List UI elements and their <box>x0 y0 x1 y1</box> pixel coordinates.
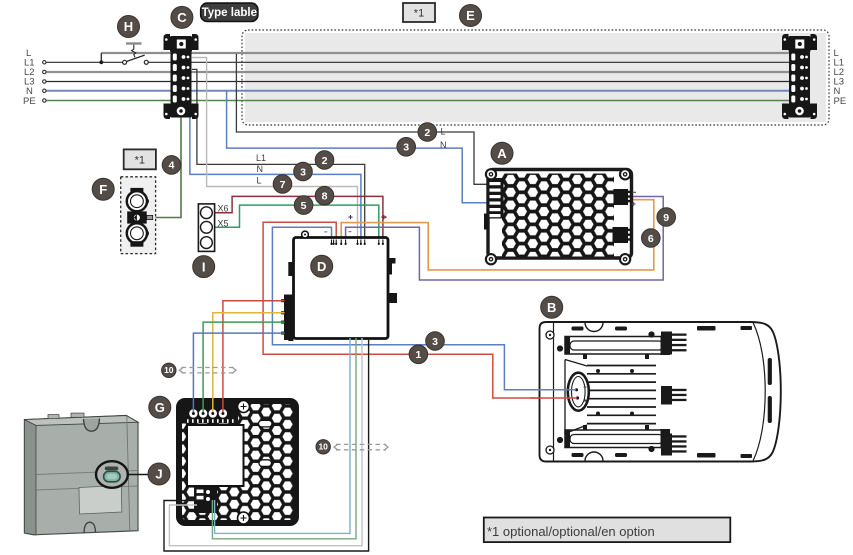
meter seam <box>36 471 138 475</box>
wire green loop G to D <box>212 338 356 539</box>
num 3 top <box>397 138 416 157</box>
num 2 top <box>418 123 437 142</box>
svg-text:1: 1 <box>415 349 421 361</box>
num 1 low <box>409 345 428 364</box>
svg-text:10: 10 <box>164 365 174 375</box>
B rib dots <box>596 369 600 373</box>
wire L (grey bus) <box>101 52 792 54</box>
G screws <box>238 401 250 413</box>
num 5 <box>294 196 313 215</box>
svg-text:L1: L1 <box>256 153 266 163</box>
svg-text:*1 optional/optional/en option: *1 optional/optional/en option <box>487 524 655 539</box>
wire N (blue bus) <box>46 90 792 92</box>
A left tab <box>484 214 489 230</box>
num 3 mid <box>294 162 313 181</box>
right block arms <box>782 34 789 50</box>
F dashed box <box>121 177 156 254</box>
D top pins <box>332 240 383 244</box>
wire N to device D <box>190 91 361 239</box>
wire L1 (black bus, right of switch) <box>148 61 792 63</box>
B oval polarity <box>584 386 587 388</box>
C arms <box>164 34 171 50</box>
right block head window <box>795 40 804 49</box>
B top bump <box>585 323 603 332</box>
meter lid tabs <box>48 415 59 419</box>
ref A <box>491 142 513 164</box>
wire X5 to device D <box>207 205 379 238</box>
D top screw <box>302 231 309 238</box>
G comb teeth <box>187 419 234 423</box>
switch H blade <box>126 55 144 62</box>
svg-text:L: L <box>441 126 446 136</box>
ref E <box>460 5 482 27</box>
svg-text:N: N <box>257 164 264 174</box>
node L to L1 feed <box>100 53 102 62</box>
bundle marker left <box>182 367 235 369</box>
wire green G to D <box>203 322 284 412</box>
right block slots <box>791 54 808 103</box>
ref G <box>149 396 171 418</box>
wire blue loop G to D <box>215 338 350 533</box>
wire L3 (black bus) <box>46 81 792 83</box>
wire red loop D to B <box>263 222 576 398</box>
svg-text:N: N <box>440 140 447 150</box>
svg-text:2: 2 <box>424 127 430 139</box>
ref J <box>148 463 170 485</box>
wire 3 N to device A <box>227 91 489 203</box>
svg-text:L: L <box>257 176 262 186</box>
box E grey fill <box>245 33 826 122</box>
A polarity plus <box>632 202 636 206</box>
wire yellow G to D <box>213 313 285 412</box>
callout slot <box>105 467 119 471</box>
G pills <box>259 420 273 427</box>
num 10 right <box>316 440 330 454</box>
wire red G to D <box>223 301 285 412</box>
A left connector <box>489 178 504 219</box>
A body <box>488 170 632 259</box>
ref I <box>193 256 215 278</box>
star1 box top <box>403 3 435 22</box>
svg-text:A: A <box>497 146 507 161</box>
num 7 <box>273 175 292 194</box>
G frame <box>176 398 299 526</box>
wire blue end into B <box>530 389 576 391</box>
B right connector blocks and pins <box>661 332 687 456</box>
optional note box <box>484 518 731 543</box>
minus mark blue loop <box>324 231 327 233</box>
svg-text:3: 3 <box>432 336 438 348</box>
meter body <box>24 416 138 535</box>
G bottom connector <box>194 487 217 514</box>
bundle marker right <box>336 443 386 445</box>
right block bottom screw <box>795 107 804 116</box>
num 4 <box>162 156 181 175</box>
wire PE to connector F <box>152 117 181 218</box>
svg-text:*1: *1 <box>135 154 145 166</box>
ref H <box>118 16 140 38</box>
ref C <box>171 6 193 28</box>
meter bottom notch <box>84 522 96 533</box>
svg-text:4: 4 <box>169 160 175 172</box>
svg-text:J: J <box>155 467 162 482</box>
B corner screws <box>546 331 554 339</box>
wire X6 to device D <box>207 196 383 238</box>
meter fold <box>127 416 130 531</box>
D body <box>294 238 389 339</box>
ref D <box>311 255 333 277</box>
svg-text:E: E <box>466 8 475 23</box>
G top connector <box>182 404 238 424</box>
svg-text:5: 5 <box>301 200 307 212</box>
B right slots <box>768 358 772 385</box>
F upper socket <box>130 188 143 194</box>
ref B <box>541 296 563 318</box>
svg-text:3: 3 <box>300 166 306 178</box>
A right connector upper <box>614 189 629 205</box>
B inner curve <box>753 323 765 462</box>
svg-text:X5: X5 <box>218 219 229 229</box>
svg-text:D: D <box>317 259 326 274</box>
wire blue G to D <box>193 333 284 412</box>
svg-text:PE: PE <box>834 96 847 107</box>
ref F <box>92 178 114 200</box>
C slots <box>173 54 190 103</box>
svg-text:I: I <box>202 259 206 274</box>
F middle block <box>127 211 147 223</box>
svg-text:*1: *1 <box>414 8 424 20</box>
B top rail <box>565 337 669 355</box>
svg-text:8: 8 <box>322 191 328 203</box>
svg-text:3: 3 <box>403 142 409 154</box>
wire 2 L to device A <box>236 54 489 185</box>
callout button <box>104 471 121 482</box>
C bottom screw <box>177 107 186 116</box>
svg-text:X6: X6 <box>218 204 229 214</box>
polarity plus mark near D <box>348 215 352 219</box>
svg-text:B: B <box>547 300 556 315</box>
B oval connector <box>568 373 589 411</box>
B inner panel edge <box>553 323 555 462</box>
callout line to J <box>128 474 148 476</box>
wire red end into B <box>530 397 577 399</box>
switch H contacts <box>123 60 127 64</box>
svg-text:9: 9 <box>663 212 669 224</box>
B rib funnel <box>565 360 587 434</box>
box E dashed border <box>242 30 829 125</box>
meter label <box>79 486 122 515</box>
svg-text:PE: PE <box>23 96 36 107</box>
num 3 low <box>426 332 445 351</box>
wire PE (green bus) <box>46 100 792 102</box>
D left connector <box>284 295 294 341</box>
meter top lid <box>24 416 138 426</box>
wire black loop G to D <box>164 338 369 551</box>
svg-text:10: 10 <box>318 442 328 452</box>
wire purple A- to D <box>346 197 664 281</box>
A corner screws <box>485 168 632 265</box>
wire L to device D <box>192 58 358 239</box>
G window <box>187 425 244 486</box>
wire orange A+ to D <box>341 200 654 270</box>
B edge slots <box>572 326 753 458</box>
wire L1 (black bus, left of switch) <box>46 61 123 63</box>
switch H spring link <box>132 45 136 58</box>
svg-text:F: F <box>99 182 107 197</box>
wire L2 (grey bus) <box>46 71 792 73</box>
G honeycomb interior <box>182 404 293 520</box>
wire L1 to device D <box>192 69 365 238</box>
meter left face <box>24 420 36 535</box>
B outline <box>540 322 781 462</box>
B heat sink ribs <box>587 366 656 424</box>
terminal block C body <box>171 48 192 107</box>
B bottom bump <box>585 452 603 461</box>
callout ellipse <box>96 461 128 488</box>
svg-text:2: 2 <box>322 155 328 167</box>
svg-text:7: 7 <box>280 179 286 191</box>
C head window <box>177 40 186 49</box>
num 6 <box>642 229 661 248</box>
wire blue loop D to B <box>272 227 575 390</box>
num 2 mid <box>315 151 334 170</box>
switch H actuator bar <box>126 42 142 44</box>
svg-text:G: G <box>155 400 165 415</box>
right terminal block body <box>789 48 810 107</box>
I body <box>198 204 214 252</box>
F lower socket <box>127 223 147 243</box>
D right tabs <box>388 258 396 275</box>
svg-text:H: H <box>124 19 133 34</box>
svg-text:6: 6 <box>648 233 654 245</box>
svg-text:Type lable: Type lable <box>202 7 257 19</box>
B bottom rail <box>565 430 669 448</box>
type label tag <box>201 3 258 21</box>
A honeycomb <box>502 174 614 257</box>
num 9 <box>657 208 676 227</box>
svg-text:C: C <box>177 10 187 25</box>
minus mark purple loop <box>348 231 351 233</box>
wire grey loop G to D <box>169 338 362 546</box>
num 10 left <box>162 363 176 377</box>
junction dot on L1 <box>99 60 103 64</box>
A right connector lower <box>613 227 629 243</box>
meter top notch <box>84 418 100 431</box>
D left tabs <box>288 262 293 276</box>
bus terminals left <box>43 61 46 103</box>
star1 box F <box>124 149 156 169</box>
num 8 <box>315 186 334 205</box>
A polarity minus <box>633 191 637 193</box>
polarity mark on maroon wire <box>381 215 384 219</box>
